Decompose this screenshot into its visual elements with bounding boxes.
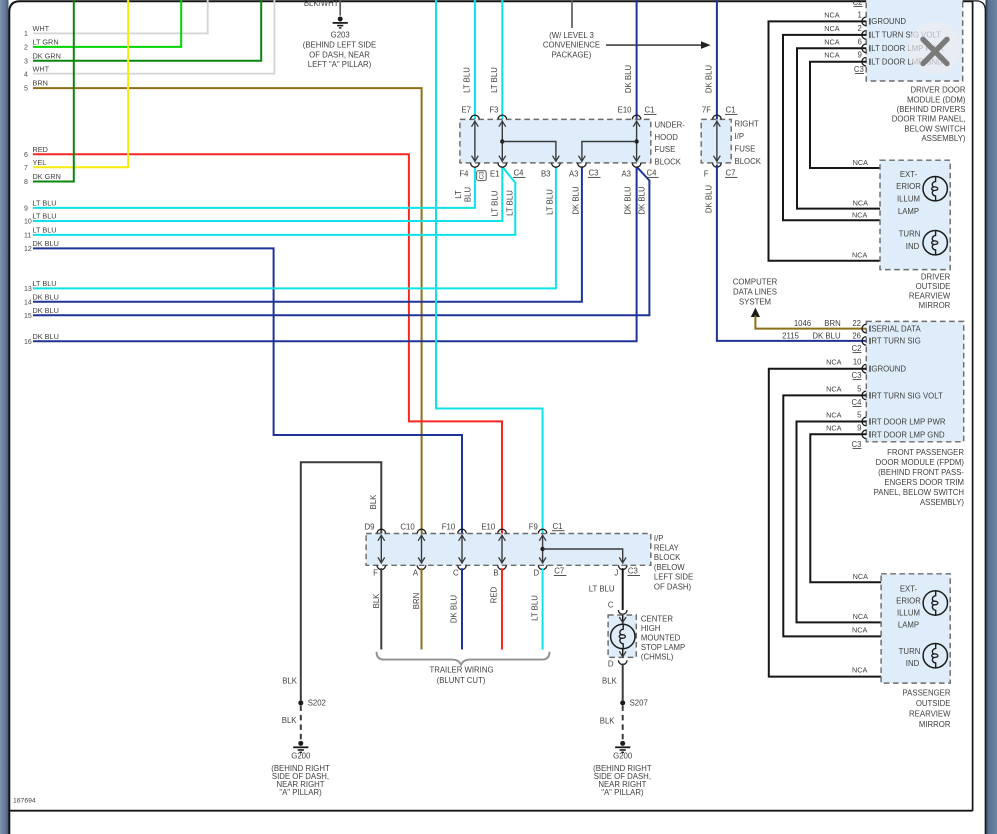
svg-text:NCA: NCA: [826, 424, 842, 433]
wire 1 WHT: [24, 0, 208, 38]
svg-text:BRN: BRN: [412, 593, 421, 609]
pin 10 FPDM: [826, 358, 906, 374]
svg-text:NCA: NCA: [852, 666, 868, 675]
svg-text:HIGH: HIGH: [641, 624, 661, 633]
pin A bottom relay: [413, 565, 426, 577]
svg-text:C3: C3: [480, 171, 486, 179]
svg-text:5: 5: [857, 411, 862, 420]
I/P relay block U3: [366, 534, 693, 592]
svg-text:(W/ LEVEL 3: (W/ LEVEL 3: [549, 31, 594, 40]
pin A3 second bottom: [621, 163, 640, 179]
pin E1 bottom: [490, 163, 507, 179]
pin 2 DDM: [824, 24, 941, 40]
svg-text:(CHMSL): (CHMSL): [641, 653, 674, 662]
svg-text:DK BLU: DK BLU: [812, 331, 841, 340]
connector C1 label relay: [552, 522, 565, 531]
pin 1 DDM: [824, 10, 906, 26]
svg-text:(BEHIND LEFT SIDE: (BEHIND LEFT SIDE: [303, 41, 377, 50]
svg-text:CENTER: CENTER: [641, 614, 673, 623]
svg-text:6: 6: [24, 152, 28, 159]
pin D bottom relay: [534, 565, 547, 577]
svg-text:C3: C3: [589, 169, 599, 178]
svg-text:BLK: BLK: [282, 716, 298, 725]
NCA labels passenger mirror: [852, 572, 868, 675]
svg-text:1: 1: [24, 31, 28, 38]
svg-text:BLOCK: BLOCK: [655, 157, 682, 166]
svg-text:DRIVER: DRIVER: [921, 273, 951, 282]
svg-text:DOOR TRIM PANEL,: DOOR TRIM PANEL,: [892, 115, 966, 124]
connector C3 label relay: [627, 567, 640, 576]
svg-text:DK BLU: DK BLU: [623, 186, 632, 215]
svg-text:NCA: NCA: [853, 612, 869, 621]
trailer wire BLK blunt: [372, 568, 382, 649]
svg-text:9: 9: [857, 424, 861, 433]
svg-text:E1: E1: [490, 170, 500, 179]
svg-text:ASSEMBLY): ASSEMBLY): [920, 498, 964, 507]
connector C7 label right block: [725, 169, 738, 178]
svg-text:OF DASH, NEAR: OF DASH, NEAR: [309, 50, 370, 59]
svg-text:BLK: BLK: [600, 716, 616, 725]
svg-text:NCA: NCA: [824, 37, 840, 46]
svg-text:C3: C3: [852, 440, 862, 449]
svg-text:FUSE: FUSE: [655, 145, 676, 154]
svg-text:LT: LT: [454, 190, 463, 199]
connector C4 label second: [646, 169, 659, 178]
wire 14 DK BLU to fuse A3: [24, 167, 582, 307]
svg-text:OUTSIDE: OUTSIDE: [916, 699, 951, 708]
svg-text:RED: RED: [490, 586, 499, 603]
svg-text:BLK: BLK: [282, 676, 298, 685]
pin J bottom relay: [614, 565, 627, 577]
svg-text:26: 26: [852, 331, 861, 340]
svg-text:MODULE (DDM): MODULE (DDM): [907, 95, 966, 104]
svg-text:LT BLU: LT BLU: [33, 279, 57, 288]
svg-text:DK BLU: DK BLU: [571, 186, 580, 215]
wire 8 DK GRN: [24, 0, 74, 186]
connector C3 label FPDM bottom: [852, 440, 862, 449]
label trailer wiring: [429, 666, 493, 686]
wire LT BLU riser to relay F9: [436, 0, 543, 534]
svg-text:OUTSIDE: OUTSIDE: [916, 282, 951, 291]
svg-text:PANEL, BELOW SWITCH: PANEL, BELOW SWITCH: [874, 488, 964, 497]
svg-text:1: 1: [857, 10, 861, 19]
svg-text:F9: F9: [529, 523, 538, 532]
pin D CHMSL: [608, 660, 627, 669]
relay internal D9-F: [378, 535, 385, 564]
svg-text:B3: B3: [541, 170, 551, 179]
trailer wire DK BLU blunt: [450, 568, 462, 649]
svg-text:STOP LAMP: STOP LAMP: [641, 643, 685, 652]
svg-text:7: 7: [24, 165, 28, 172]
svg-text:HOOD: HOOD: [655, 133, 679, 142]
wire BLK from relay D9 to S202: [301, 462, 382, 700]
svg-text:10: 10: [24, 219, 32, 226]
right I/P fuse block U2: [701, 119, 762, 165]
svg-text:FRONT PASSENGER: FRONT PASSENGER: [887, 448, 964, 457]
svg-text:DK BLU: DK BLU: [33, 332, 59, 341]
svg-text:LT BLU: LT BLU: [545, 189, 554, 215]
connector C3 label: [588, 169, 601, 178]
svg-text:A: A: [413, 569, 419, 578]
wire DDM pin 2 LT TURN SIG VOLT to mirror turn lamp: [783, 35, 935, 230]
svg-text:DK BLU: DK BLU: [638, 186, 647, 215]
pin E7 top: [461, 106, 479, 120]
svg-text:MOUNTED: MOUNTED: [641, 634, 681, 643]
lamp turn indicator driver: [923, 231, 947, 255]
splice S202: [298, 699, 326, 708]
svg-text:SERIAL DATA: SERIAL DATA: [871, 324, 921, 333]
driver door module DDM: [866, 0, 966, 143]
svg-text:I/P: I/P: [654, 534, 664, 543]
svg-text:BELOW SWITCH: BELOW SWITCH: [904, 124, 965, 133]
frame bottom line: [9, 810, 973, 812]
wire 5 BRN to relay C10: [24, 79, 422, 534]
wire 12 DK BLU to relay F10: [24, 239, 462, 534]
svg-text:GROUND: GROUND: [871, 365, 906, 374]
lamp exterior illum passenger: [923, 591, 947, 615]
pin F9 top: [529, 523, 547, 534]
svg-text:LAMP: LAMP: [898, 207, 919, 216]
svg-text:DK BLU: DK BLU: [33, 292, 59, 301]
svg-text:DK GRN: DK GRN: [33, 172, 61, 181]
svg-text:DK BLU: DK BLU: [33, 306, 59, 315]
pin A3 bottom: [569, 163, 586, 179]
relay internal E10-B: [499, 535, 506, 564]
svg-text:DOOR MODULE (FPDM): DOOR MODULE (FPDM): [876, 458, 965, 467]
svg-text:3: 3: [24, 58, 28, 65]
svg-text:2115: 2115: [782, 331, 799, 340]
pin 22 FPDM serial data: [862, 324, 921, 333]
splice S207: [620, 699, 648, 708]
trailer wire RED blunt: [490, 568, 502, 649]
wire 16 DK BLU to fuse A3 second: [24, 167, 637, 346]
svg-text:C7: C7: [554, 567, 564, 576]
svg-text:BLK: BLK: [369, 494, 378, 510]
lamp turn indicator passenger: [923, 644, 947, 668]
svg-text:F10: F10: [442, 523, 456, 532]
label 1046 BRN 22: [794, 319, 861, 328]
svg-text:(BEHIND FRONT PASS-: (BEHIND FRONT PASS-: [878, 468, 964, 477]
wire LT BLU riser to fuse E7: [463, 0, 475, 120]
svg-text:11: 11: [24, 233, 31, 240]
connector C7 label relay: [554, 567, 567, 576]
svg-text:C4: C4: [514, 169, 525, 178]
svg-text:REARVIEW: REARVIEW: [909, 709, 951, 718]
front passenger door module FPDM: [866, 321, 964, 507]
svg-text:LT BLU: LT BLU: [589, 585, 615, 594]
pin E10 top relay: [481, 523, 506, 534]
center high mounted stop lamp CHMSL: [608, 614, 685, 661]
CHMSL internal lamp: [611, 615, 635, 657]
svg-text:NCA: NCA: [824, 24, 840, 33]
wire FPDM pin 5 RT DOOR LMP PWR to pass illum lamp: [797, 422, 936, 623]
svg-text:12: 12: [24, 246, 32, 253]
wire LT BLU riser to fuse F3: [490, 0, 502, 120]
svg-text:(BELOW: (BELOW: [654, 563, 685, 572]
svg-text:DRIVER DOOR: DRIVER DOOR: [910, 86, 965, 95]
pin F bottom right block: [704, 163, 721, 179]
svg-text:E10: E10: [618, 106, 633, 115]
pin 5 FPDM turn sig volt: [826, 384, 943, 400]
svg-text:C: C: [453, 569, 459, 578]
connector C2 label DDM: [853, 0, 863, 7]
svg-text:C1: C1: [645, 106, 655, 115]
svg-text:ILLUM: ILLUM: [897, 195, 920, 204]
watermark X icon: [908, 21, 961, 74]
svg-text:ASSEMBLY): ASSEMBLY): [921, 134, 965, 143]
pin F bottom relay: [373, 565, 385, 577]
svg-text:BLK: BLK: [372, 593, 381, 609]
svg-text:SYSTEM: SYSTEM: [739, 298, 771, 307]
svg-text:G200: G200: [613, 751, 633, 760]
svg-text:NCA: NCA: [852, 251, 868, 260]
wire 11 LT BLU to fuse E1 (diagonal): [24, 167, 515, 240]
ground G200 right: [593, 741, 652, 797]
svg-text:BRN: BRN: [33, 79, 48, 88]
NCA labels driver mirror: [852, 158, 868, 260]
node E10 junction to A3: [579, 139, 639, 162]
connector C4 label FPDM: [852, 398, 863, 407]
svg-text:DK GRN: DK GRN: [33, 51, 61, 60]
svg-text:BLK/WHT: BLK/WHT: [304, 0, 339, 8]
svg-text:F: F: [373, 569, 378, 578]
svg-text:LAMP: LAMP: [898, 621, 919, 630]
label LT BLU below F4 (two lines): [454, 187, 472, 203]
svg-text:LEFT SIDE: LEFT SIDE: [654, 573, 693, 582]
svg-text:NCA: NCA: [824, 10, 840, 19]
pin B3 bottom: [541, 163, 560, 179]
svg-text:S207: S207: [630, 699, 648, 708]
wire DDM pin 1 GROUND to mirror turn lamp: [769, 21, 936, 260]
relay internal F10-C: [459, 535, 466, 564]
trailer wire LT BLU blunt: [530, 568, 542, 649]
arrow to driver door module: [606, 41, 711, 49]
svg-text:F: F: [704, 170, 709, 179]
svg-text:FUSE: FUSE: [735, 144, 756, 153]
wire DK BLU 2115 from right block F to FPDM pin 26: [705, 165, 867, 341]
svg-text:5: 5: [24, 86, 28, 93]
svg-text:C7: C7: [726, 169, 736, 178]
wire 4 WHT: [24, 0, 274, 78]
right backdrop band: [986, 0, 997, 834]
svg-text:13: 13: [24, 286, 32, 293]
svg-text:10: 10: [853, 358, 862, 367]
svg-text:14: 14: [24, 299, 32, 306]
svg-text:LT BLU: LT BLU: [530, 595, 539, 621]
underhood fuse block U1: [460, 119, 685, 166]
svg-text:B: B: [493, 569, 498, 578]
connector C3 inline box on F4 wire: [477, 171, 487, 181]
svg-text:NCA: NCA: [852, 210, 868, 219]
svg-text:PASSENGER: PASSENGER: [903, 689, 951, 698]
svg-text:D9: D9: [365, 523, 375, 532]
wire FPDM pin 9 RT DOOR LMP GND to pass illum lamp: [810, 434, 935, 590]
left backdrop band: [0, 0, 9, 834]
relay internal C10-A: [418, 535, 425, 564]
wire 3 DK GRN: [24, 0, 261, 65]
svg-text:CONVENIENCE: CONVENIENCE: [543, 41, 600, 50]
pin F4 bottom: [459, 163, 479, 179]
pin C10 top: [400, 523, 425, 534]
wire BLK/WHT leader to G203: [304, 0, 340, 16]
pin C bottom relay: [453, 565, 466, 577]
pin 26 FPDM rt turn sig: [862, 337, 921, 346]
svg-text:9: 9: [857, 51, 861, 60]
pin 5 FPDM door lmp pwr: [826, 411, 946, 427]
relay internal F9-D: [539, 535, 546, 564]
svg-text:OF DASH): OF DASH): [654, 582, 692, 591]
node junction F9 to J: [540, 547, 626, 564]
svg-text:NCA: NCA: [826, 358, 842, 367]
svg-text:G203: G203: [331, 30, 350, 39]
computer data lines system arrow: [733, 278, 778, 317]
wire BLK dashed S202 to G200: [282, 705, 301, 740]
svg-text:C: C: [608, 600, 614, 609]
wire DDM pin 6 LT DOOR LMP PWR to illum lamp: [797, 48, 935, 208]
wire LT BLU from relay J to CHMSL: [589, 568, 623, 610]
svg-text:D: D: [608, 660, 614, 669]
svg-text:9: 9: [24, 206, 28, 213]
svg-text:G200: G200: [291, 751, 311, 760]
svg-text:C10: C10: [400, 523, 415, 532]
svg-text:LT BLU: LT BLU: [490, 67, 499, 93]
lamp exterior illum driver: [923, 177, 947, 201]
svg-text:16: 16: [24, 339, 32, 346]
trailer wiring brace: [377, 652, 550, 665]
svg-text:NCA: NCA: [853, 158, 869, 167]
svg-text:WHT: WHT: [33, 64, 50, 73]
svg-text:NCA: NCA: [853, 198, 869, 207]
svg-text:8: 8: [24, 179, 28, 186]
svg-text:DK BLU: DK BLU: [450, 595, 459, 624]
svg-text:DATA LINES: DATA LINES: [733, 288, 777, 297]
svg-text:TURN: TURN: [899, 229, 921, 238]
ground G203: [303, 17, 377, 70]
svg-text:DK BLU: DK BLU: [705, 185, 714, 214]
svg-text:IND: IND: [906, 659, 920, 668]
pin C CHMSL: [608, 600, 627, 614]
svg-text:ENGERS DOOR TRIM: ENGERS DOOR TRIM: [884, 478, 964, 487]
right fuse internal 7F-F: [714, 121, 721, 162]
svg-text:RT DOOR LMP GND: RT DOOR LMP GND: [871, 430, 945, 439]
svg-text:REARVIEW: REARVIEW: [909, 292, 951, 301]
leader w/ level 3 convenience package: [543, 0, 600, 59]
svg-text:ERIOR: ERIOR: [896, 182, 921, 191]
wire BLK from CHMSL D to S207: [602, 664, 623, 701]
svg-text:E7: E7: [461, 106, 471, 115]
svg-text:A3: A3: [569, 170, 579, 179]
pin B bottom relay: [493, 565, 506, 577]
pin 9 DDM: [824, 51, 943, 67]
wire DK BLU riser to fuse E10: [624, 0, 637, 120]
svg-text:C4: C4: [852, 398, 863, 407]
fuse internal E7-F4: [472, 121, 479, 162]
svg-text:GROUND: GROUND: [871, 17, 906, 26]
svg-text:C1: C1: [726, 106, 736, 115]
svg-text:LT BLU: LT BLU: [463, 67, 472, 93]
svg-text:NCA: NCA: [853, 572, 869, 581]
svg-text:BLOCK: BLOCK: [735, 157, 762, 166]
svg-text:(BEHIND DRIVERS: (BEHIND DRIVERS: [897, 105, 966, 114]
svg-text:YEL: YEL: [33, 158, 47, 167]
connector C3 label DDM: [854, 65, 864, 74]
svg-text:5: 5: [857, 384, 862, 393]
svg-text:LT BLU: LT BLU: [33, 199, 57, 208]
wire DK BLU riser to right fuse block: [705, 0, 717, 120]
svg-text:NCA: NCA: [824, 51, 840, 60]
svg-text:MIRROR: MIRROR: [919, 720, 951, 729]
wire 9 LT BLU to fuse F4: [24, 167, 475, 213]
svg-text:S202: S202: [308, 699, 326, 708]
svg-text:TURN: TURN: [899, 647, 921, 656]
svg-text:C3: C3: [852, 371, 862, 380]
svg-text:LEFT "A" PILLAR): LEFT "A" PILLAR): [308, 60, 372, 69]
connector C4 label: [513, 169, 526, 178]
svg-text:E10: E10: [481, 523, 496, 532]
trailer wire BRN blunt: [412, 568, 422, 649]
svg-text:"A" PILLAR): "A" PILLAR): [279, 788, 322, 797]
svg-text:COMPUTER: COMPUTER: [733, 278, 778, 287]
svg-text:LT BLU: LT BLU: [491, 190, 500, 216]
svg-text:NCA: NCA: [826, 411, 842, 420]
wire 7 YEL: [24, 0, 128, 172]
svg-text:C2: C2: [852, 344, 862, 353]
driver outside rearview mirror: [880, 160, 951, 310]
svg-text:C4: C4: [647, 169, 658, 178]
svg-text:RIGHT: RIGHT: [735, 119, 759, 128]
svg-text:15: 15: [24, 313, 32, 320]
fuse internal F3-E1: [499, 121, 506, 162]
wire 15 DK BLU to fuse A3 second (diagonal): [24, 167, 649, 320]
wire 13 LT BLU to fuse B3: [24, 167, 556, 294]
pin F10 top: [442, 523, 467, 534]
pin 9 FPDM door lmp gnd: [826, 424, 945, 440]
svg-text:PACKAGE): PACKAGE): [552, 50, 592, 59]
svg-text:2: 2: [24, 45, 28, 52]
svg-text:RT TURN SIG VOLT: RT TURN SIG VOLT: [871, 391, 943, 400]
svg-text:RELAY: RELAY: [654, 544, 680, 553]
svg-text:J: J: [614, 569, 618, 578]
svg-text:2: 2: [857, 24, 861, 33]
outer page edge top-right: [973, 1, 986, 834]
fuse internal E10-A3: [633, 121, 640, 162]
passenger outside rearview mirror: [881, 574, 951, 729]
connector C1 label right block: [725, 106, 738, 115]
svg-text:D: D: [534, 569, 540, 578]
svg-text:I/P: I/P: [735, 132, 745, 141]
svg-text:C3: C3: [854, 65, 864, 74]
svg-text:BRN: BRN: [824, 319, 840, 328]
svg-text:4: 4: [24, 71, 28, 78]
svg-text:C2: C2: [853, 0, 863, 7]
label 2115 DK BLU 26: [782, 331, 861, 340]
svg-text:LT BLU: LT BLU: [33, 212, 57, 221]
svg-text:RED: RED: [33, 145, 48, 154]
wire DDM pin 9 LT DOOR LMP GND to illum lamp: [810, 62, 935, 176]
ground G200 left: [271, 741, 330, 797]
pin 7F top: [702, 106, 721, 120]
pin 6 DDM: [824, 37, 944, 53]
svg-text:ILLUM: ILLUM: [897, 608, 920, 617]
svg-text:RT DOOR LMP PWR: RT DOOR LMP PWR: [871, 418, 945, 427]
svg-text:(BLUNT CUT): (BLUNT CUT): [437, 676, 486, 685]
node F3 junction to B3: [500, 139, 559, 162]
svg-text:F3: F3: [489, 106, 498, 115]
wire 10 LT BLU to fuse E1: [24, 167, 502, 226]
svg-text:EXT-: EXT-: [900, 170, 918, 179]
svg-text:1046: 1046: [794, 319, 811, 328]
svg-text:F4: F4: [459, 170, 469, 179]
